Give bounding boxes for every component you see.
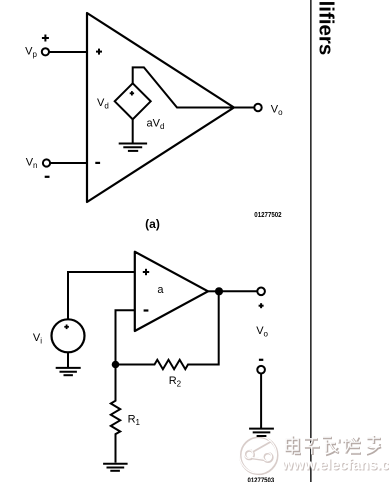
svg-text:www.elecfans.com: www.elecfans.com — [281, 457, 389, 473]
ground below Vo- — [249, 429, 274, 436]
minus sign inverting input U1 — [95, 162, 100, 164]
page header tab text "lifiers" (rotated) — [314, 1, 337, 56]
svg-text:01277502: 01277502 — [254, 212, 281, 219]
terminal Vo minus — [257, 366, 265, 374]
svg-text:(a): (a) — [145, 217, 160, 231]
wire Vn to op-amp — [50, 162, 87, 164]
terminal Vn — [43, 159, 50, 166]
op-amp U2 triangle — [135, 252, 208, 331]
plus sign above Vp — [42, 35, 49, 42]
terminal Vo plus — [257, 288, 265, 296]
minus sign below Vn — [45, 176, 50, 178]
terminal Vo — [254, 104, 261, 111]
watermark logo circle — [240, 436, 278, 474]
terminal Vp — [42, 48, 49, 55]
output node dot — [215, 287, 223, 295]
wire Vi to noninverting input — [68, 272, 135, 319]
svg-text:01277503: 01277503 — [248, 477, 275, 482]
minus sign above Vo- terminal — [259, 359, 263, 361]
wire Vp to op-amp — [49, 51, 87, 53]
dependent source aVd (diamond) — [115, 83, 151, 119]
resistor R1 — [111, 365, 120, 463]
op-amp U1 triangle — [87, 13, 234, 202]
svg-text:a: a — [157, 284, 164, 296]
source Vi circle — [52, 319, 85, 352]
wire diamond to op-amp output apex — [133, 67, 234, 107]
plus sign inside diamond — [130, 91, 134, 95]
ground below Vi — [56, 352, 81, 375]
wire Vo- terminal to ground — [260, 374, 262, 429]
page edge rule — [310, 0, 312, 482]
plus sign inside Vi — [64, 325, 69, 330]
watermark chinese text 电子发烧友 — [286, 435, 381, 455]
wire output node to Vo+ terminal — [219, 290, 257, 292]
junction node A — [112, 361, 120, 369]
plus sign below Vo+ terminal — [259, 303, 264, 308]
ground below R1 — [103, 464, 128, 471]
wire output to Vo terminal — [234, 107, 254, 109]
watermark url text — [281, 457, 389, 474]
wire output node to apex — [208, 290, 219, 292]
plus sign noninverting input U2 — [143, 269, 149, 275]
plus sign noninverting input U1 — [96, 49, 102, 55]
minus sign inverting input U2 — [144, 309, 149, 311]
ground below diamond — [119, 119, 147, 151]
svg-text:lifiers: lifiers — [314, 1, 337, 56]
resistor R2 — [116, 291, 219, 369]
wire inverting input to node A — [116, 310, 135, 364]
